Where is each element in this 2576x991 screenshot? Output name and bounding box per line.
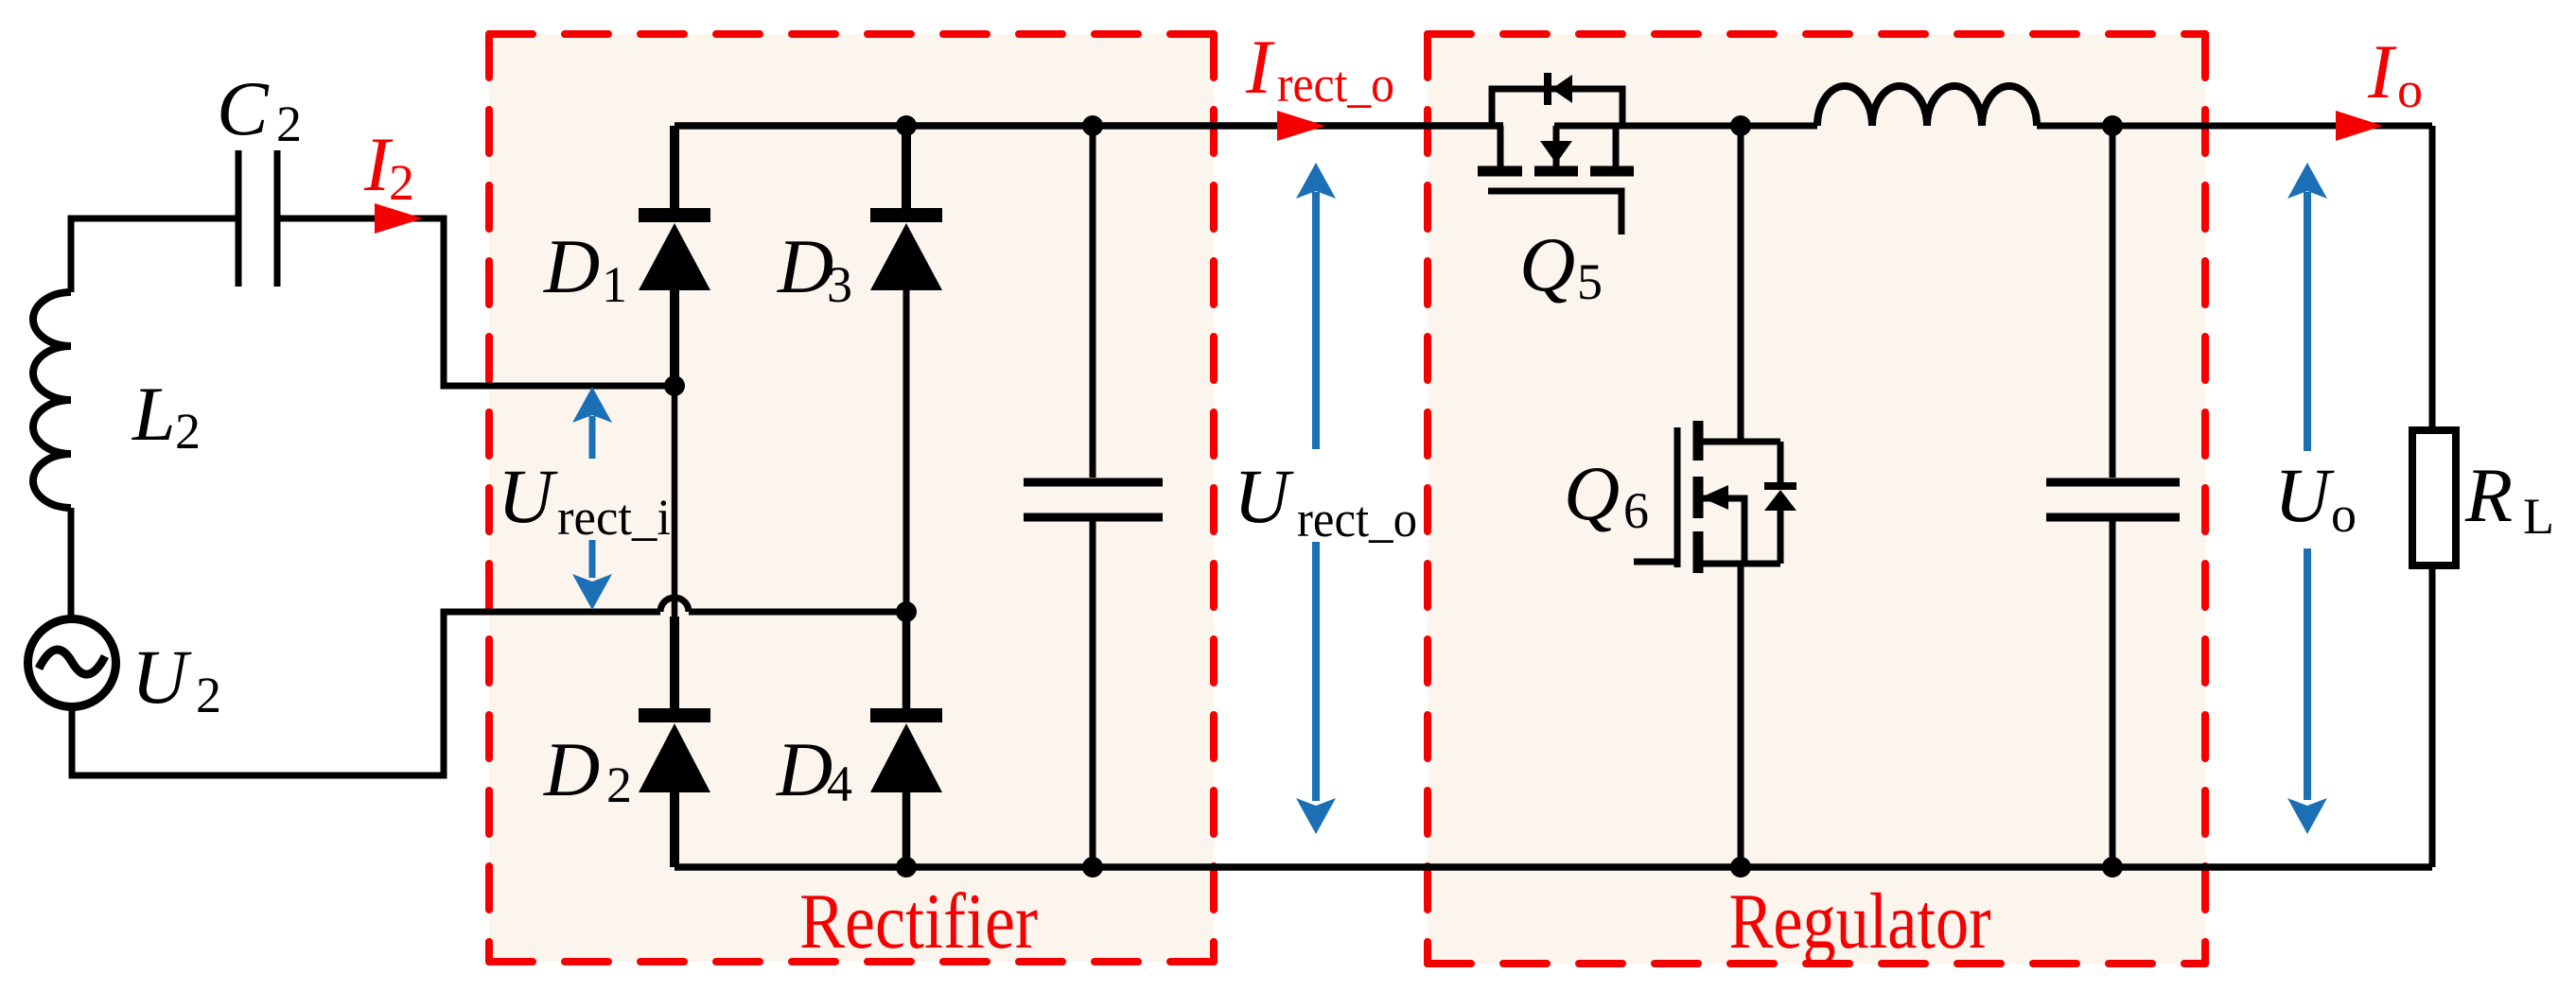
svg-text:5: 5	[1577, 253, 1603, 310]
svg-text:Rectifier: Rectifier	[799, 878, 1038, 965]
capacitor C out	[2046, 126, 2180, 867]
svg-text:D: D	[776, 726, 832, 812]
Q6 channel bars	[1693, 421, 1704, 461]
svg-text:2: 2	[196, 667, 221, 723]
resistor RL	[2412, 430, 2456, 565]
Q6 gate	[1674, 427, 1681, 567]
svg-text:rect_o: rect_o	[1297, 491, 1417, 548]
MOSFET Q6	[1634, 421, 1796, 573]
arrow U rect_i up	[572, 387, 612, 459]
AC source U2	[28, 619, 116, 707]
Q5 body diode loop	[1492, 89, 1622, 126]
svg-text:6: 6	[1623, 482, 1649, 539]
Q6 body terminal with arrow	[1702, 498, 1744, 564]
junction node bottom rail at Q6	[1730, 857, 1751, 878]
wire: Q5 to inductor	[1554, 123, 1817, 130]
diode D4	[870, 612, 942, 867]
svg-text:D: D	[543, 223, 600, 309]
wire: U2 bottom to lower input corner	[72, 612, 660, 775]
Q6 body diode	[1778, 442, 1784, 484]
wire: bottom DC rail	[675, 863, 2432, 871]
junction node bottom rail at C out	[2102, 857, 2123, 878]
svg-text:I: I	[1245, 24, 1275, 110]
inductor L2	[33, 292, 71, 508]
Regulator dashed box	[1428, 34, 2205, 964]
svg-text:2: 2	[606, 756, 632, 813]
svg-text:2: 2	[276, 96, 302, 152]
svg-text:3: 3	[827, 256, 852, 313]
junction node top rail at D3	[896, 115, 917, 136]
wire: hop to D3/D4 node	[689, 609, 906, 616]
arrow U rect_o down	[1296, 542, 1336, 834]
svg-text:L: L	[2523, 488, 2554, 545]
inductor L filter	[1817, 86, 2037, 126]
junction node input plus	[664, 375, 685, 396]
svg-text:C: C	[217, 65, 270, 151]
wire: left circuit top (L2 top to C2 left plate)	[71, 218, 236, 292]
svg-text:o: o	[2331, 486, 2357, 543]
wire: C2 right plate to input corner	[280, 218, 675, 386]
svg-text:rect_o: rect_o	[1277, 56, 1394, 113]
Q5 right terminal	[1613, 126, 1620, 167]
Rectifier box fill	[489, 34, 1214, 962]
arrow U o up	[2287, 163, 2327, 451]
svg-text:U: U	[498, 453, 558, 539]
diode D3	[870, 126, 942, 612]
svg-text:U: U	[2274, 452, 2335, 538]
Q5 left terminal	[1498, 126, 1504, 167]
Regulator box fill	[1428, 34, 2205, 964]
wire: Q6 source to bottom rail	[1738, 564, 1744, 867]
svg-text:D: D	[777, 223, 833, 309]
junction node bottom rail at C rect	[1082, 857, 1103, 878]
wire: L2 bottom to U2 top	[68, 508, 75, 620]
capacitor C2	[238, 150, 277, 287]
arrow U rect_i down	[572, 540, 612, 610]
wire: output right drop to RL	[2429, 126, 2436, 430]
arrow I2	[375, 203, 423, 234]
svg-text:R: R	[2464, 452, 2513, 538]
Q6 drain terminal	[1702, 439, 1780, 445]
svg-text:Q: Q	[1564, 450, 1620, 536]
svg-text:4: 4	[827, 756, 852, 812]
svg-text:D: D	[543, 726, 600, 812]
junction node bottom rail at D4	[896, 857, 917, 878]
junction node top rail at C out	[2102, 115, 2123, 136]
diode D1	[639, 126, 710, 386]
arrow I o	[2336, 111, 2383, 141]
wire: inductor to output corner	[2037, 123, 2432, 130]
Q6 source terminal	[1702, 561, 1780, 567]
svg-text:I: I	[2367, 28, 2397, 114]
svg-text:rect_i: rect_i	[557, 489, 671, 546]
wire hop over D1-D2 branch	[660, 598, 689, 612]
arrow U o down	[2287, 548, 2327, 834]
svg-text:2: 2	[389, 154, 414, 211]
svg-text:U: U	[131, 634, 192, 720]
svg-text:Regulator: Regulator	[1729, 878, 1991, 965]
Q5 middle terminal with arrow	[1553, 126, 1560, 167]
svg-text:U: U	[1234, 453, 1294, 539]
wire: top DC rail	[675, 122, 1503, 130]
MOSFET Q5	[1478, 73, 1634, 235]
capacitor C rect (filter)	[1024, 126, 1163, 867]
Q5 gate	[1488, 191, 1621, 235]
Q5 channel bars	[1478, 166, 1522, 177]
diode D2	[639, 386, 710, 867]
svg-text:1: 1	[602, 256, 627, 313]
svg-text:o: o	[2397, 61, 2423, 118]
svg-text:Q: Q	[1519, 221, 1575, 307]
wire: RL bottom to rail	[2429, 565, 2436, 867]
arrow I rect_o	[1277, 111, 1325, 141]
wire: Q6 drain branch	[1738, 126, 1744, 442]
Q5 body diode symbol	[1544, 73, 1551, 105]
junction node top rail at C rect	[1082, 115, 1103, 136]
svg-text:L: L	[131, 371, 176, 457]
Rectifier dashed box	[489, 34, 1214, 962]
junction node top rail at Q6	[1730, 115, 1751, 136]
svg-text:2: 2	[175, 403, 201, 460]
junction node input minus	[896, 601, 917, 622]
arrow U rect_o up	[1296, 163, 1336, 449]
